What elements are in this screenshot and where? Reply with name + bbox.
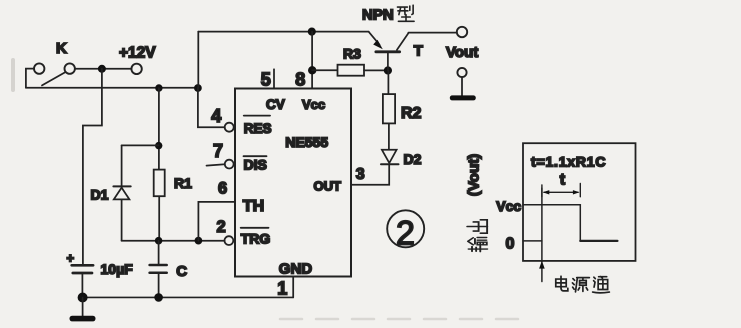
scan edge smudge: [11, 58, 15, 92]
svg-text:TH: TH: [243, 198, 264, 215]
node pin8/R3 junction: [308, 66, 316, 74]
svg-text:R2: R2: [401, 105, 422, 122]
pin 4 circle: [225, 123, 234, 132]
waveform zero level line: [523, 240, 542, 242]
resistor R3: [338, 45, 365, 75]
resistor R2: [383, 94, 422, 123]
diode D1: [91, 186, 131, 202]
wire top rail: [198, 31, 368, 33]
svg-text:OUT: OUT: [314, 179, 342, 194]
label hanzi tong: [593, 277, 610, 293]
wire pin1 stub: [292, 276, 294, 297]
svg-text:t: t: [560, 172, 566, 189]
pin 5 label: [261, 69, 274, 89]
svg-text:RES: RES: [244, 121, 272, 136]
pin 7 stub: [207, 164, 225, 165]
svg-text:R1: R1: [174, 175, 192, 191]
node rail/R1 junction: [155, 84, 162, 91]
wire R2 to D2: [388, 123, 390, 149]
node rail/left-vert junction: [194, 84, 202, 92]
pin DIS label: [244, 156, 267, 172]
ground Vout: [450, 95, 476, 100]
svg-text:2: 2: [396, 215, 415, 253]
waveform low level line: [580, 240, 617, 242]
wire Vout return to ground: [461, 77, 463, 95]
wire C leads: [158, 241, 160, 298]
node D1/R1 top junction: [155, 142, 162, 149]
svg-text:4: 4: [211, 106, 221, 126]
svg-text:D2: D2: [404, 151, 422, 167]
waveform falling edge: [579, 205, 581, 241]
svg-text:2: 2: [217, 218, 226, 236]
node +12V junction: [98, 65, 106, 73]
svg-text:7: 7: [213, 141, 223, 161]
svg-text:CV: CV: [266, 97, 285, 112]
svg-text:DIS: DIS: [244, 157, 267, 173]
label hanzi dian: [556, 276, 568, 291]
wire collector to Vout: [408, 32, 456, 34]
pin RES label: [244, 116, 272, 136]
wire 10uF bottom: [81, 274, 83, 297]
node ground/10uF: [78, 293, 88, 303]
svg-text:NE555: NE555: [285, 134, 328, 150]
wire ground bus: [82, 296, 293, 298]
wire horizontal rail y=87.8: [26, 87, 198, 89]
wire D2 to OUT pin3: [351, 165, 389, 185]
svg-text:8: 8: [295, 69, 305, 89]
resistor R1: [154, 170, 192, 197]
transistor Q1: [369, 32, 423, 71]
svg-text:GND: GND: [279, 261, 313, 278]
wire base node down to R2: [387, 71, 389, 95]
svg-text:+12V: +12V: [119, 45, 156, 62]
capacitor 10uF: [67, 251, 134, 278]
terminal Vout top: [446, 27, 478, 61]
svg-text:t=1.1xR1C: t=1.1xR1C: [531, 154, 606, 170]
pin 2 circle: [225, 236, 234, 245]
node ground/C: [154, 293, 163, 302]
svg-text:(Vout): (Vout): [465, 154, 482, 196]
svg-text:0: 0: [506, 236, 515, 253]
svg-text:+: +: [67, 251, 75, 266]
waveform Vcc level line: [523, 204, 580, 206]
svg-text:Vout: Vout: [446, 44, 478, 61]
wire D1 top horizontal: [122, 144, 159, 146]
+12V terminal: [119, 45, 156, 75]
diode D2: [381, 150, 422, 167]
scan smudge bottom: [280, 318, 520, 321]
waveform box: [523, 143, 636, 261]
svg-text:C: C: [176, 263, 187, 280]
svg-text:R3: R3: [343, 45, 361, 61]
wire TRG horizontal: [122, 240, 225, 242]
switch K: [34, 40, 75, 85]
svg-text:Vcc: Vcc: [496, 198, 521, 214]
wire pin4 connection: [198, 88, 225, 127]
svg-text:5: 5: [261, 69, 271, 89]
svg-text:3: 3: [356, 166, 365, 183]
capacitor C: [150, 263, 188, 280]
node figure number 2: [387, 210, 424, 252]
op-amp U1 : NE555 IC body: [235, 89, 351, 277]
ground: [70, 298, 96, 322]
svg-text:D1: D1: [91, 186, 109, 202]
wire +12V down with jog to 10uF: [83, 69, 102, 264]
svg-text:T: T: [414, 42, 423, 59]
label hanzi xing: [397, 5, 414, 21]
node TH/TRG junction: [195, 237, 203, 245]
wire to R3: [312, 69, 337, 71]
wire pin8 vertical: [311, 32, 313, 89]
svg-text:Vcc: Vcc: [302, 97, 325, 112]
pin 7 circle: [225, 160, 234, 169]
wire left vertical to top rail: [197, 32, 199, 88]
wire R3 to base node: [364, 69, 388, 71]
pin TRG label: [241, 228, 271, 247]
label hanzi shu rotated: [468, 238, 487, 252]
svg-text:K: K: [56, 40, 67, 57]
node C top junction: [155, 237, 163, 245]
wire R1 branch vertical: [158, 88, 160, 241]
svg-text:10µF: 10µF: [101, 261, 134, 277]
dimension arrows for t: [542, 184, 580, 197]
label hanzi chu rotated: [467, 220, 487, 233]
node top rail / pin8: [308, 28, 316, 36]
terminal Vout return: [457, 68, 466, 77]
wire D1 vertical top: [121, 145, 123, 186]
svg-text:1: 1: [277, 279, 287, 299]
waveform rising edge vertical: [541, 188, 543, 262]
svg-text:6: 6: [218, 180, 227, 198]
svg-text:TRG: TRG: [241, 231, 271, 247]
svg-text:NPN: NPN: [362, 7, 394, 24]
power-on arrow: [539, 261, 545, 282]
wire switch left to rail: [26, 69, 34, 88]
wire D1 vertical bottom: [121, 200, 123, 241]
label hanzi yuan: [572, 278, 589, 292]
wire TH branch: [198, 202, 235, 241]
node base/R2 junction: [384, 66, 392, 74]
wire switch right to +12V: [75, 68, 131, 70]
